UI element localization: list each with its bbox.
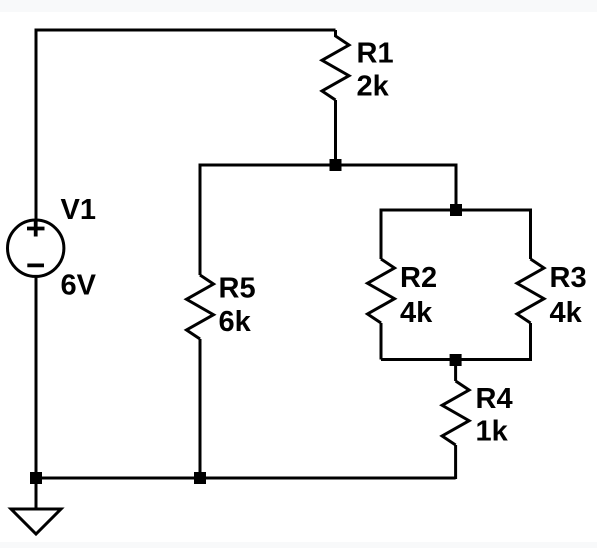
wire parallel bottom horizontal <box>381 358 531 361</box>
node N3 <box>450 354 462 366</box>
wire top horizontal <box>36 29 336 32</box>
svg-text:R3: R3 <box>550 262 587 294</box>
svg-text:6V: 6V <box>61 270 97 302</box>
svg-text:R4: R4 <box>476 383 513 415</box>
wire middle horizontal <box>200 164 456 167</box>
wire R2 top <box>380 209 383 260</box>
wire left vertical upper <box>35 29 38 221</box>
ground <box>11 478 61 534</box>
svg-text:R5: R5 <box>219 273 256 305</box>
resistor R5 <box>187 275 214 339</box>
wire R4 to bottom <box>454 445 457 479</box>
svg-text:6k: 6k <box>219 306 252 338</box>
node N4 <box>30 472 42 484</box>
resistor R3 <box>517 259 544 323</box>
wire node to R4 <box>454 360 457 381</box>
wire bottom horizontal <box>36 477 456 480</box>
resistor R2 <box>368 259 395 323</box>
wire left branch upper <box>199 164 202 276</box>
svg-text:2k: 2k <box>357 71 390 103</box>
wire right branch vertical <box>455 164 458 211</box>
resistor R4 <box>442 381 469 445</box>
wire R2 bottom <box>380 323 383 360</box>
wire parallel top horizontal <box>381 209 531 212</box>
svg-text:4k: 4k <box>400 297 433 329</box>
resistor R1 <box>322 30 349 100</box>
wire R3 bottom <box>529 323 532 361</box>
wire R5 to bottom <box>199 339 202 478</box>
svg-text:V1: V1 <box>61 194 96 226</box>
svg-text:R2: R2 <box>400 262 437 294</box>
voltage source V1 <box>8 220 64 276</box>
svg-text:R1: R1 <box>357 38 394 70</box>
wire R1 to node <box>334 100 337 165</box>
wire R3 top <box>529 209 532 260</box>
wire left vertical lower <box>35 277 38 479</box>
svg-text:1k: 1k <box>476 415 509 447</box>
svg-text:4k: 4k <box>550 297 583 329</box>
node N1 <box>330 159 342 171</box>
node N2 <box>450 204 462 216</box>
node N5 <box>194 472 206 484</box>
